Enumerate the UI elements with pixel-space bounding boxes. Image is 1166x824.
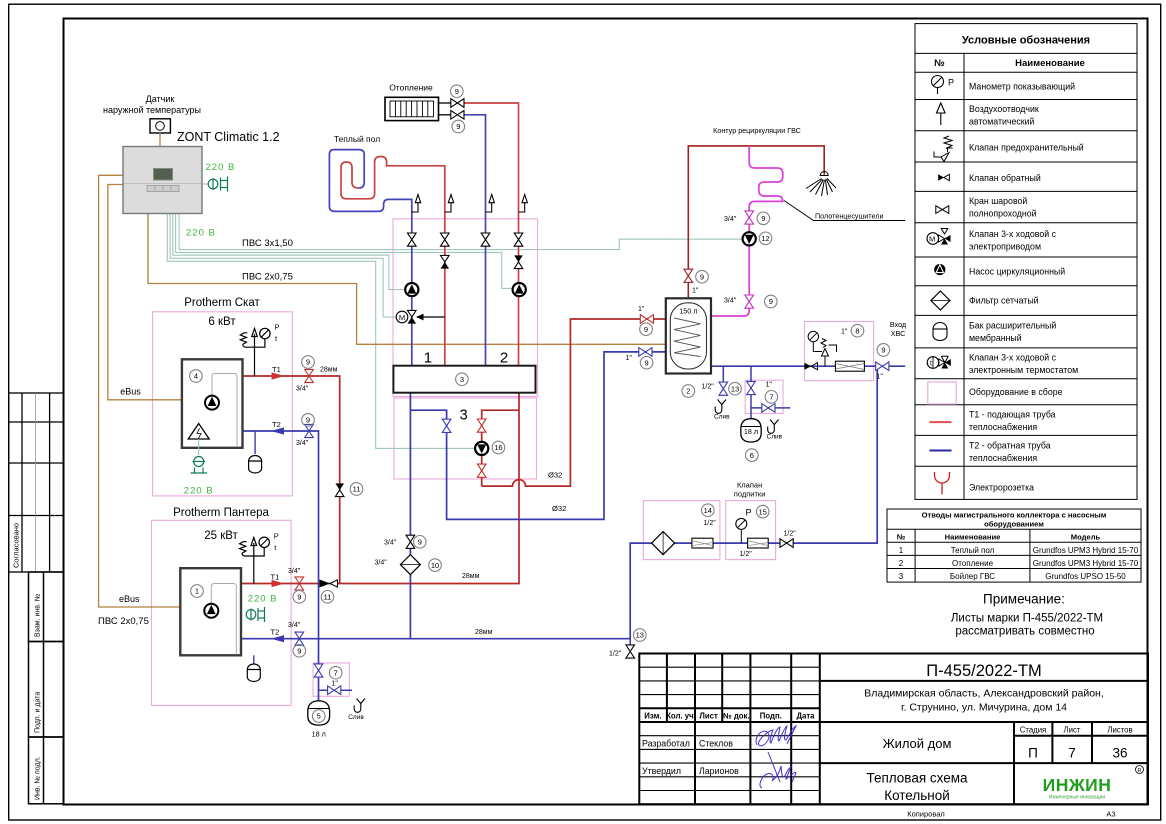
red pipe: Скат T1 to trunk	[243, 376, 340, 584]
brown stub sensor to ZONT	[159, 133, 161, 147]
svg-text:Копировал: Копировал	[907, 810, 945, 819]
svg-text:Электророзетка: Электророзетка	[969, 483, 1034, 493]
svg-text:3/4": 3/4"	[724, 298, 737, 305]
svg-text:мембранный: мембранный	[969, 333, 1022, 343]
pump 2 circulation	[513, 283, 526, 296]
check valve riser 4	[514, 255, 523, 262]
svg-text:Ø32: Ø32	[548, 471, 562, 480]
svg-text:220 В: 220 В	[184, 486, 214, 497]
svg-text:ХВС: ХВС	[891, 329, 906, 338]
valve on 18l tank 6 stub	[747, 381, 756, 394]
Пантера T2 valve	[295, 632, 304, 645]
svg-text:М: М	[929, 235, 935, 244]
makeup meter element 1	[692, 538, 713, 548]
svg-text:теплоснабжения: теплоснабжения	[969, 453, 1037, 463]
pink box 7b drain assembly near 18l tank	[745, 380, 783, 413]
drain symbol at tank 6 branch	[768, 420, 779, 434]
svg-text:Инженерные инновации: Инженерные инновации	[1049, 795, 1105, 801]
svg-text:1/2": 1/2"	[609, 651, 622, 658]
svg-text:1": 1"	[841, 328, 848, 335]
signature scribble	[756, 726, 796, 788]
svg-text:Т1: Т1	[271, 572, 280, 581]
svg-text:Grundfos UPM3 Hybrid 15-70: Grundfos UPM3 Hybrid 15-70	[1033, 559, 1139, 568]
teal control wire to M-valve	[170, 214, 396, 318]
pink box manifold circuits 1-2	[393, 219, 538, 397]
legend symbol: Т2 line	[929, 450, 951, 452]
svg-text:9: 9	[645, 358, 649, 367]
svg-text:Слив: Слив	[348, 714, 364, 721]
valve in box 7a	[314, 664, 323, 677]
svg-text:П: П	[1028, 746, 1038, 761]
svg-text:ПВС 2х0,75: ПВС 2х0,75	[98, 616, 149, 627]
radiator supply valve	[451, 99, 464, 108]
svg-text:1": 1"	[766, 381, 773, 388]
svg-text:P: P	[275, 323, 280, 332]
makeup meter element 2	[748, 538, 769, 548]
svg-text:подпитки: подпитки	[734, 490, 766, 499]
svg-text:9: 9	[455, 87, 459, 96]
DHW pump 16	[475, 442, 488, 455]
svg-text:P: P	[274, 532, 279, 541]
svg-text:3/4": 3/4"	[384, 539, 397, 546]
blue pipe: collector return down to T2 trunk	[409, 393, 411, 639]
teal control wire to pump 1	[173, 214, 405, 290]
blue pipe: radiator return riser (circuit 2)	[463, 115, 486, 366]
svg-text:Grundfos UPM3 Hybrid 15-70: Grundfos UPM3 Hybrid 15-70	[1033, 546, 1139, 555]
svg-text:3: 3	[899, 572, 904, 581]
pink box 7a drain assembly near Пантера	[313, 663, 349, 696]
svg-text:Условные обозначения: Условные обозначения	[962, 35, 1090, 47]
svg-text:18 л: 18 л	[312, 730, 326, 739]
svg-text:Наименование: Наименование	[1015, 58, 1085, 69]
svg-text:автоматический: автоматический	[969, 117, 1035, 127]
riser 2 ball valve	[441, 233, 450, 246]
Скат line check valve 11	[335, 483, 344, 490]
blue stub: Скат expansion vessel	[254, 431, 256, 454]
recirculation upper valve	[745, 211, 754, 224]
tank top valve	[684, 269, 693, 282]
svg-text:13: 13	[636, 631, 644, 640]
Скат safety group	[240, 329, 265, 377]
svg-text:Кран шаровой: Кран шаровой	[969, 196, 1027, 206]
svg-text:оборудованием: оборудованием	[984, 520, 1044, 529]
recirculation lower valve	[745, 295, 754, 308]
svg-text:7: 7	[1068, 746, 1076, 761]
red pipe: DHW primary supply branch with pump 16	[482, 410, 519, 486]
strainer element on cold water line	[835, 361, 864, 371]
left blocks: Взам.инв№ / Подп. и дата / Инв.№ подл.	[29, 572, 64, 804]
blue pipe: collector branch to tank coil return	[410, 352, 665, 520]
Protherm Скат boiler	[182, 359, 243, 455]
red pipe: T1 trunk Пантера to collector	[241, 393, 519, 584]
makeup line valve 1/2	[780, 539, 793, 548]
svg-text:Отопление: Отопление	[389, 83, 433, 93]
svg-text:3/4": 3/4"	[288, 568, 301, 575]
blue pipe: T2 trunk Пантера to makeup corner	[241, 366, 877, 639]
pink box manifold circuit 3	[394, 398, 537, 479]
svg-text:2: 2	[899, 559, 904, 568]
drain symbol near tank stub 13	[715, 400, 726, 414]
brown ПВС wire to water heater tank	[148, 214, 666, 345]
svg-text:16: 16	[494, 443, 502, 452]
svg-text:теплоснабжения: теплоснабжения	[969, 422, 1037, 432]
brown eBus wire to Пантера boiler	[99, 175, 181, 607]
svg-text:11: 11	[324, 593, 332, 602]
svg-text:Кол. уч.: Кол. уч.	[666, 712, 696, 721]
blue pipe: cold water line from tank to ХВС inlet	[711, 365, 905, 367]
svg-text:1: 1	[424, 350, 432, 367]
svg-text:28мм: 28мм	[462, 573, 480, 580]
svg-text:Ø32: Ø32	[552, 504, 566, 513]
svg-text:Вход: Вход	[890, 320, 907, 329]
blue stub: to 18l tank 6 and drain branch	[751, 366, 790, 419]
teal control wire to pump 16	[167, 214, 475, 449]
svg-text:Тепловая схема: Тепловая схема	[866, 771, 968, 786]
svg-text:9: 9	[769, 297, 773, 306]
svg-text:рассматривать совместно: рассматривать совместно	[955, 626, 1094, 638]
Полотенцесушители label with leader	[784, 201, 905, 221]
radiator return valve	[451, 111, 464, 120]
svg-text:Наименование: Наименование	[945, 533, 1001, 542]
18 л tank 6 near water heater	[741, 419, 761, 442]
220V socket symbol at ZONT	[208, 177, 227, 192]
makeup assembly: filter diamond 14	[652, 532, 675, 555]
riser 3 ball valve	[481, 233, 490, 246]
pink box 15 makeup valve assembly	[726, 501, 776, 560]
svg-text:3/4": 3/4"	[296, 440, 309, 447]
svg-text:Датчик: Датчик	[146, 94, 175, 104]
legend symbol: насос циркуляционный	[934, 264, 945, 275]
blue pipe: floor heating return riser (circuit 1)	[329, 150, 411, 366]
svg-text:1/2": 1/2"	[740, 551, 753, 558]
svg-text:15: 15	[759, 507, 767, 516]
Protherm Пантера boiler	[180, 568, 241, 655]
svg-text:9: 9	[881, 346, 885, 355]
svg-text:Насос циркуляционный: Насос циркуляционный	[969, 267, 1065, 277]
teal control wire to pump 2	[176, 214, 513, 289]
air vent on riser 3	[486, 195, 495, 213]
Пантера T1 flow arrow	[272, 580, 285, 587]
svg-text:Теплый пол: Теплый пол	[951, 546, 995, 555]
legend symbol: манометр	[932, 76, 944, 95]
svg-text:Разработал: Разработал	[642, 738, 690, 748]
svg-text:Дата: Дата	[796, 712, 815, 721]
collector (коллектор) 3	[393, 366, 535, 393]
svg-text:Ларионов: Ларионов	[699, 766, 739, 776]
Пантера T2 flow arrow	[271, 635, 284, 642]
svg-text:Инв. № подл.: Инв. № подл.	[35, 756, 42, 800]
svg-text:Т2 - обратная труба: Т2 - обратная труба	[969, 441, 1051, 451]
blue pipe: drain branch in box 7a	[319, 689, 353, 691]
svg-text:9: 9	[761, 214, 765, 223]
svg-text:1": 1"	[638, 306, 645, 313]
legend symbol: клапан 3-х ходовой с электроприводом	[927, 229, 951, 245]
svg-text:28мм: 28мм	[475, 629, 493, 636]
svg-text:Воздухоотводчик: Воздухоотводчик	[969, 104, 1039, 114]
legend symbol: фильтр сетчатый	[931, 291, 950, 310]
svg-text:Слив: Слив	[714, 414, 730, 421]
tank coil supply valve	[640, 315, 653, 324]
svg-text:7: 7	[334, 668, 338, 677]
circled position numbers	[190, 85, 890, 722]
svg-text:3: 3	[460, 408, 468, 424]
air vent on riser 1	[412, 195, 421, 213]
cold water inlet gauge + safety valve assembly (box 8)	[808, 331, 836, 366]
svg-text:18 л: 18 л	[744, 427, 758, 436]
svg-text:3/4": 3/4"	[288, 622, 301, 629]
svg-text:12: 12	[761, 234, 769, 243]
svg-text:1: 1	[195, 587, 199, 596]
svg-text:Согласовано: Согласовано	[12, 523, 21, 568]
blue pipe: floor heating inner loop top	[334, 150, 364, 188]
legend symbol: бак расширительный	[933, 323, 947, 341]
Пантера boiler pump	[204, 604, 218, 618]
drain stub valve 13 near tank	[719, 382, 728, 395]
svg-text:Подп. и дата: Подп. и дата	[35, 692, 42, 733]
svg-text:1": 1"	[877, 374, 884, 381]
svg-text:1": 1"	[626, 355, 633, 362]
Пантера expansion vessel	[247, 664, 260, 681]
svg-text:9: 9	[306, 416, 310, 425]
Скат boiler pump	[205, 396, 219, 410]
svg-text:3/4": 3/4"	[375, 560, 388, 567]
svg-text:14: 14	[704, 506, 712, 515]
blue stub: drain valve 13 near tank	[722, 366, 724, 396]
blue stub: drain valve 13 at makeup corner	[629, 639, 631, 658]
svg-text:Лист: Лист	[699, 712, 718, 721]
svg-text:Grundfos UPSO 15-50: Grundfos UPSO 15-50	[1045, 572, 1126, 581]
svg-text:Манометр показывающий: Манометр показывающий	[969, 82, 1075, 92]
svg-text:3/4": 3/4"	[296, 386, 309, 393]
small pipe size labels	[288, 216, 883, 687]
svg-text:Жилой дом: Жилой дом	[883, 736, 952, 751]
svg-text:Т1: Т1	[272, 365, 281, 374]
svg-text:Слив: Слив	[767, 434, 783, 441]
magenta pipe: ГВС recirculation with towel rail serpentine	[711, 146, 783, 316]
tank coil return valve	[639, 348, 652, 357]
svg-text:наружной температуры: наружной температуры	[103, 105, 201, 115]
svg-text:№: №	[897, 533, 905, 542]
strainer filter 10	[400, 555, 420, 575]
drain valve in box 7a	[328, 686, 341, 695]
svg-text:1: 1	[899, 546, 904, 555]
collector branch valve (circuit 3 return)	[442, 419, 451, 432]
svg-text:1/2": 1/2"	[784, 531, 797, 538]
svg-text:электронным термостатом: электронным термостатом	[969, 365, 1078, 375]
svg-text:1": 1"	[692, 287, 699, 294]
check valve riser 2	[441, 255, 450, 262]
Скат T2 flow arrow	[271, 427, 284, 434]
hot water tank 150 л	[666, 298, 711, 373]
svg-text:3: 3	[460, 375, 464, 384]
svg-text:А3: А3	[1106, 810, 1115, 819]
DHW branch lower valve	[477, 464, 486, 477]
svg-text:Р: Р	[948, 78, 954, 88]
blue pipe: Скат T2 and down-line to tank 5	[243, 431, 319, 701]
Пантера T1 valve	[295, 577, 304, 590]
left approval strip table	[9, 393, 64, 572]
svg-text:Полотенцесушители: Полотенцесушители	[815, 212, 883, 221]
svg-text:Клапан 3-х ходовой с: Клапан 3-х ходовой с	[969, 353, 1057, 363]
svg-text:eBus: eBus	[119, 594, 140, 604]
Пантера 220V socket	[246, 607, 264, 622]
svg-text:36: 36	[1112, 746, 1127, 761]
drain valve in box 7b	[762, 404, 775, 413]
svg-text:П-455/2022-ТМ: П-455/2022-ТМ	[926, 662, 1042, 680]
radiator connection black stubs	[439, 102, 452, 104]
red pipe: radiator supply riser (circuit 2)	[463, 103, 519, 366]
pump 1 circulation	[405, 283, 418, 296]
makeup pressure gauge 15	[736, 518, 747, 529]
red pipe: DHW run to tank coil with bridge hump	[482, 319, 666, 486]
svg-text:2: 2	[686, 387, 690, 396]
ZONT Climatic controller	[123, 147, 202, 214]
svg-text:11: 11	[353, 485, 361, 494]
svg-text:Оборудование в сборе: Оборудование в сборе	[969, 387, 1063, 397]
svg-text:Модель: Модель	[1071, 533, 1101, 542]
svg-text:6 кВт: 6 кВт	[208, 316, 236, 328]
svg-text:t: t	[930, 361, 932, 368]
legend symbol: электророзетка	[935, 472, 950, 495]
air vent on riser 2	[445, 195, 454, 213]
pink box 8 cold water inlet assembly	[805, 322, 874, 381]
svg-text:Т2: Т2	[271, 628, 280, 637]
svg-text:Клапан: Клапан	[737, 481, 762, 490]
blue stub: Пантера expansion vessel	[253, 655, 255, 663]
svg-text:ИНЖИН: ИНЖИН	[1043, 775, 1112, 795]
svg-text:Теплый пол: Теплый пол	[334, 134, 380, 144]
cold water inlet valve 9	[876, 362, 889, 371]
svg-text:Бойлер ГВС: Бойлер ГВС	[950, 572, 995, 581]
svg-text:13: 13	[731, 384, 739, 393]
legend symbol: Т1 line	[929, 421, 951, 423]
svg-text:Котельной: Котельной	[884, 788, 950, 803]
svg-text:ZONT Climatic 1.2: ZONT Climatic 1.2	[177, 130, 280, 144]
svg-text:Клапан 3-х ходовой с: Клапан 3-х ходовой с	[969, 229, 1057, 239]
teal stub to 220V socket at ZONT	[202, 183, 208, 185]
legend symbol: клапан предохранительный	[934, 136, 953, 162]
legend symbol: клапан 3-х ходовой с электронным термостатом	[927, 356, 951, 368]
svg-text:№: №	[934, 58, 945, 69]
legend symbol: кран шаровой	[936, 206, 949, 214]
svg-text:9: 9	[644, 325, 648, 334]
svg-text:4: 4	[194, 372, 198, 381]
svg-text:3/4": 3/4"	[724, 216, 737, 223]
svg-text:9: 9	[418, 538, 422, 547]
svg-text:Листы марки П-455/2022-ТМ: Листы марки П-455/2022-ТМ	[951, 613, 1103, 625]
riser 1 ball valve	[408, 233, 417, 246]
pink box 14 makeup filter assembly	[643, 501, 720, 560]
Скат T1 flow arrow	[272, 372, 285, 379]
svg-text:г. Струнино, ул. Мичурина, дом: г. Струнино, ул. Мичурина, дом 14	[901, 702, 1067, 714]
drain symbol near Пантера box 7a	[354, 699, 365, 713]
svg-text:R: R	[1138, 768, 1142, 774]
svg-text:Клапан предохранительный: Клапан предохранительный	[969, 143, 1084, 153]
air vent on riser 4	[519, 195, 528, 213]
svg-text:Т1 - подающая труба: Т1 - подающая труба	[969, 410, 1056, 420]
legend symbol: оборудование в сборе	[928, 382, 956, 404]
svg-text:eBus: eBus	[120, 387, 141, 397]
makeup drain valve 13	[626, 645, 635, 658]
svg-text:1/2": 1/2"	[702, 384, 715, 391]
svg-text:Protherm Пантера: Protherm Пантера	[173, 507, 269, 519]
svg-text:электроприводом: электроприводом	[969, 242, 1041, 252]
svg-text:25 кВт: 25 кВт	[204, 530, 238, 542]
svg-text:1": 1"	[332, 680, 339, 687]
pink box Protherm Скат assembly	[153, 312, 293, 496]
Скат T1 valve	[305, 369, 314, 382]
svg-text:6: 6	[750, 451, 754, 460]
svg-text:Листов: Листов	[1107, 726, 1132, 735]
3-way mixing valve with M drive	[396, 310, 445, 323]
svg-text:Подп.: Подп.	[760, 712, 782, 721]
svg-text:Бак расширительный: Бак расширительный	[969, 321, 1056, 331]
svg-text:Protherm Скат: Protherm Скат	[184, 297, 260, 309]
svg-text:150 л: 150 л	[679, 307, 697, 316]
pink box Protherm Пантера assembly	[152, 520, 292, 705]
teal control wire to pump 12	[179, 214, 743, 250]
svg-text:Клапан обратный: Клапан обратный	[969, 173, 1041, 183]
Пантера T1 check valve 11	[320, 580, 331, 588]
svg-text:ПВС 3х1,50: ПВС 3х1,50	[242, 238, 293, 249]
svg-text:Владимирская область, Александ: Владимирская область, Александровский ра…	[864, 688, 1104, 700]
svg-text:Фильтр сетчатый: Фильтр сетчатый	[969, 296, 1039, 306]
18 л tank 5 near Пантера	[308, 701, 330, 725]
svg-text:9: 9	[297, 647, 301, 656]
riser 4 ball valve	[514, 233, 523, 246]
svg-text:9: 9	[456, 122, 460, 131]
svg-text:полнопроходной: полнопроходной	[969, 209, 1037, 219]
svg-text:P: P	[746, 508, 752, 518]
dark red pipe: tank top to recirculation loop and shower	[688, 146, 824, 298]
left line ball valve 9	[406, 535, 415, 548]
Пантера safety group	[240, 538, 265, 584]
recirculation pump 12	[743, 232, 756, 245]
svg-text:Утвердил: Утвердил	[642, 766, 681, 776]
svg-text:Взам. инв. №: Взам. инв. №	[35, 594, 42, 637]
shower head symbol	[806, 172, 836, 197]
svg-text:2: 2	[500, 350, 508, 367]
svg-text:Примечание:: Примечание:	[983, 592, 1065, 607]
svg-text:9: 9	[306, 358, 310, 367]
svg-text:Отводы магистрального коллекто: Отводы магистрального коллектора с насос…	[922, 511, 1107, 520]
svg-text:220 В: 220 В	[206, 162, 236, 173]
svg-text:Стеклов: Стеклов	[699, 738, 733, 748]
svg-text:9: 9	[700, 272, 704, 281]
svg-text:28мм: 28мм	[320, 367, 338, 374]
DHW branch upper valve	[477, 419, 486, 432]
legend symbol: воздухоотводчик	[937, 103, 946, 125]
Отопление radiator	[385, 97, 439, 120]
svg-text:М: М	[399, 313, 405, 322]
red pipe: floor heating supply serpentine and riser (circuit 1)	[341, 157, 445, 366]
svg-text:10: 10	[431, 561, 439, 570]
outdoor temperature sensor box	[150, 119, 170, 133]
svg-text:Изм.: Изм.	[644, 712, 661, 721]
svg-text:Лист: Лист	[1064, 726, 1081, 735]
check valve on cold water line	[805, 363, 812, 370]
svg-text:8: 8	[855, 326, 859, 335]
svg-text:1/2": 1/2"	[704, 520, 717, 527]
brown eBus wire to Скат boiler	[108, 185, 182, 400]
Скат 220V socket	[191, 457, 208, 474]
svg-text:5: 5	[317, 712, 321, 721]
svg-text:Контур рециркуляции ГВС: Контур рециркуляции ГВС	[713, 126, 801, 135]
svg-text:9: 9	[297, 593, 301, 602]
svg-text:7: 7	[769, 393, 773, 402]
svg-text:Стадия: Стадия	[1020, 726, 1047, 735]
svg-text:Отопление: Отопление	[952, 559, 994, 568]
